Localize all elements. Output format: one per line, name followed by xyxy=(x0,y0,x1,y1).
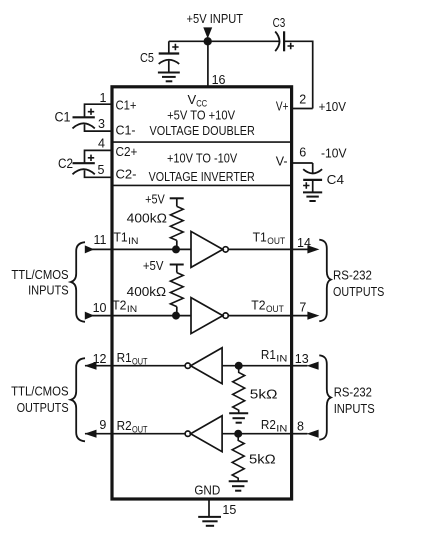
wire pin 2 stub xyxy=(292,108,313,110)
svg-text:-10V: -10V xyxy=(321,146,347,161)
arrow out of pin 14 xyxy=(307,245,319,253)
wire pin 8 stub xyxy=(292,433,308,435)
resistor R6 5k zigzag xyxy=(232,434,244,482)
svg-text:IN: IN xyxy=(128,236,138,247)
svg-text:IN: IN xyxy=(276,423,287,434)
pin label T2IN xyxy=(112,298,137,316)
wire pin 16 vertical xyxy=(207,41,209,87)
section divider inverter/drivers xyxy=(112,184,292,186)
arrow into pin 8 xyxy=(307,430,319,438)
wire pin 13 stub xyxy=(292,365,308,367)
pin label T1OUT xyxy=(253,229,286,247)
text TTL/CMOS OUTPUTS xyxy=(11,384,69,415)
+5V input arrow xyxy=(203,27,212,38)
op-amp receiver R2 xyxy=(185,416,222,452)
svg-text:13: 13 xyxy=(295,352,309,366)
svg-text:OUT: OUT xyxy=(266,304,284,315)
op-amp driver T2 xyxy=(191,298,228,334)
text RS-232 INPUTS xyxy=(334,385,375,416)
svg-text:C2: C2 xyxy=(58,156,73,171)
svg-text:2: 2 xyxy=(299,92,306,106)
wire pin 1 to C1 xyxy=(85,104,113,117)
svg-text:VOLTAGE INVERTER: VOLTAGE INVERTER xyxy=(149,169,255,184)
svg-text:+10V: +10V xyxy=(319,99,347,114)
pin label R1OUT xyxy=(117,350,148,368)
svg-text:16: 16 xyxy=(212,73,226,87)
svg-text:C1+: C1+ xyxy=(116,98,137,113)
svg-text:OUTPUTS: OUTPUTS xyxy=(17,400,69,415)
svg-text:IN: IN xyxy=(276,354,287,365)
pin label Vcc xyxy=(188,92,208,110)
wire R3 to T1 input node xyxy=(176,240,178,249)
svg-text:400kΩ: 400kΩ xyxy=(127,211,168,226)
pin label R1IN xyxy=(261,347,288,365)
resistor R4 400k zigzag xyxy=(170,273,183,307)
svg-text:V: V xyxy=(188,92,197,107)
+5V supply tap for R3 xyxy=(170,198,184,206)
wire +5V rail horizontal xyxy=(169,40,279,42)
svg-text:TTL/CMOS: TTL/CMOS xyxy=(11,384,69,399)
op-amp receiver R1 xyxy=(185,348,222,384)
capacitor C4 xyxy=(303,163,322,192)
brace RS-232 outputs xyxy=(319,240,331,322)
wire pin 15 vertical xyxy=(208,499,210,517)
svg-text:V+: V+ xyxy=(276,99,289,114)
capacitor C1 xyxy=(73,109,95,129)
svg-text:400kΩ: 400kΩ xyxy=(127,284,167,299)
svg-text:RS-232: RS-232 xyxy=(334,385,372,400)
svg-text:4: 4 xyxy=(98,136,105,150)
wire pin 12 row xyxy=(85,365,185,367)
resistor R3 400k zigzag xyxy=(170,206,183,240)
svg-text:INPUTS: INPUTS xyxy=(334,401,375,416)
wire pin 11 row xyxy=(86,248,192,250)
svg-text:R2: R2 xyxy=(261,417,276,432)
pin label R2OUT xyxy=(117,418,148,436)
svg-text:11: 11 xyxy=(94,233,107,247)
svg-text:RS-232: RS-232 xyxy=(333,268,372,283)
wire T2 output row xyxy=(228,315,291,317)
svg-text:V-: V- xyxy=(276,154,288,169)
svg-text:C2+: C2+ xyxy=(116,144,138,159)
svg-text:T1: T1 xyxy=(114,229,128,244)
junction dot R2 input xyxy=(234,430,242,438)
svg-text:15: 15 xyxy=(222,503,236,517)
svg-text:R1: R1 xyxy=(117,350,132,365)
svg-text:9: 9 xyxy=(99,418,106,432)
junction dot T1 input xyxy=(172,245,180,253)
svg-text:6: 6 xyxy=(299,146,306,160)
wire pin 14 stub xyxy=(292,248,308,250)
brace TTL/CMOS outputs xyxy=(71,358,85,441)
text RS-232 OUTPUTS xyxy=(333,268,385,299)
wire C3 to V+ corner xyxy=(284,41,313,108)
arrow into pin 10 xyxy=(85,312,94,320)
text TTL/CMOS INPUTS xyxy=(11,267,68,298)
junction dot T2 input xyxy=(172,312,180,320)
section divider doubler/inverter xyxy=(112,141,292,143)
wire R2 input row xyxy=(222,433,292,435)
svg-text:8: 8 xyxy=(297,419,304,433)
wire C2 to pin 5 xyxy=(85,170,113,177)
svg-text:VOLTAGE DOUBLER: VOLTAGE DOUBLER xyxy=(150,123,255,138)
wire R4 to T2 input node xyxy=(176,307,178,316)
brace RS-232 inputs xyxy=(319,355,331,439)
brace TTL/CMOS inputs xyxy=(71,242,85,322)
capacitor C3 xyxy=(275,31,294,51)
svg-text:+5V TO +10V: +5V TO +10V xyxy=(167,108,235,123)
ground below R6 xyxy=(229,481,248,490)
capacitor C5 xyxy=(159,41,180,72)
svg-text:T2: T2 xyxy=(251,298,265,313)
svg-text:TTL/CMOS: TTL/CMOS xyxy=(11,267,68,282)
arrow out of pin 9 xyxy=(85,430,97,438)
wire pin 4 to C2 xyxy=(85,150,113,163)
arrow into pin 11 xyxy=(85,245,94,253)
IC body outline U1 xyxy=(112,87,292,499)
wire R1 input row xyxy=(222,365,292,367)
svg-text:OUT: OUT xyxy=(267,236,285,247)
pin label R2IN xyxy=(261,417,288,435)
junction dot R1 input xyxy=(235,362,243,370)
junction dot at +5V node xyxy=(204,37,212,45)
svg-text:T1: T1 xyxy=(253,229,267,244)
ground below R5 xyxy=(229,413,248,422)
svg-text:C1-: C1- xyxy=(116,123,136,138)
svg-text:1: 1 xyxy=(100,91,107,105)
arrow out of pin 12 xyxy=(85,362,97,370)
svg-text:+5V: +5V xyxy=(143,258,164,273)
svg-text:3: 3 xyxy=(98,117,105,131)
svg-text:C1: C1 xyxy=(55,110,71,125)
svg-text:IN: IN xyxy=(127,304,137,315)
svg-text:T2: T2 xyxy=(112,298,126,313)
wire pin 6 stub xyxy=(292,162,313,164)
svg-text:5kΩ: 5kΩ xyxy=(249,451,276,466)
svg-text:GND: GND xyxy=(194,483,220,498)
svg-text:C4: C4 xyxy=(327,172,344,187)
svg-text:OUTPUTS: OUTPUTS xyxy=(333,284,385,299)
pin label T1IN xyxy=(114,229,139,247)
ground below C5 xyxy=(158,73,180,82)
arrow into pin 13 xyxy=(307,362,319,370)
arrow out of pin 7 xyxy=(307,312,319,320)
ground below C4 xyxy=(303,192,322,201)
svg-text:5: 5 xyxy=(98,163,105,177)
svg-text:7: 7 xyxy=(299,301,306,315)
ground at pin 15 xyxy=(198,517,221,526)
svg-text:R2: R2 xyxy=(117,418,132,433)
svg-text:10: 10 xyxy=(93,301,107,315)
svg-text:R1: R1 xyxy=(261,347,276,362)
svg-text:C3: C3 xyxy=(273,15,286,30)
capacitor C2 xyxy=(73,155,95,175)
wire T1 output row xyxy=(228,248,291,250)
svg-text:C5: C5 xyxy=(140,50,154,65)
wire pin 9 row xyxy=(85,433,185,435)
wire C1 to pin 3 xyxy=(85,124,113,131)
op-amp driver T1 xyxy=(191,231,228,267)
svg-text:C2-: C2- xyxy=(116,167,137,182)
svg-text:+10V TO -10V: +10V TO -10V xyxy=(167,150,237,165)
svg-text:+5V: +5V xyxy=(145,192,165,207)
pin label T2OUT xyxy=(251,298,284,316)
svg-text:+5V INPUT: +5V INPUT xyxy=(187,11,244,26)
svg-text:INPUTS: INPUTS xyxy=(28,283,69,298)
resistor R5 5k zigzag xyxy=(233,366,245,414)
+5V supply tap for R4 xyxy=(170,265,184,273)
wire pin 7 stub xyxy=(292,315,308,317)
svg-text:5kΩ: 5kΩ xyxy=(250,386,278,401)
wire pin 10 row xyxy=(86,315,192,317)
